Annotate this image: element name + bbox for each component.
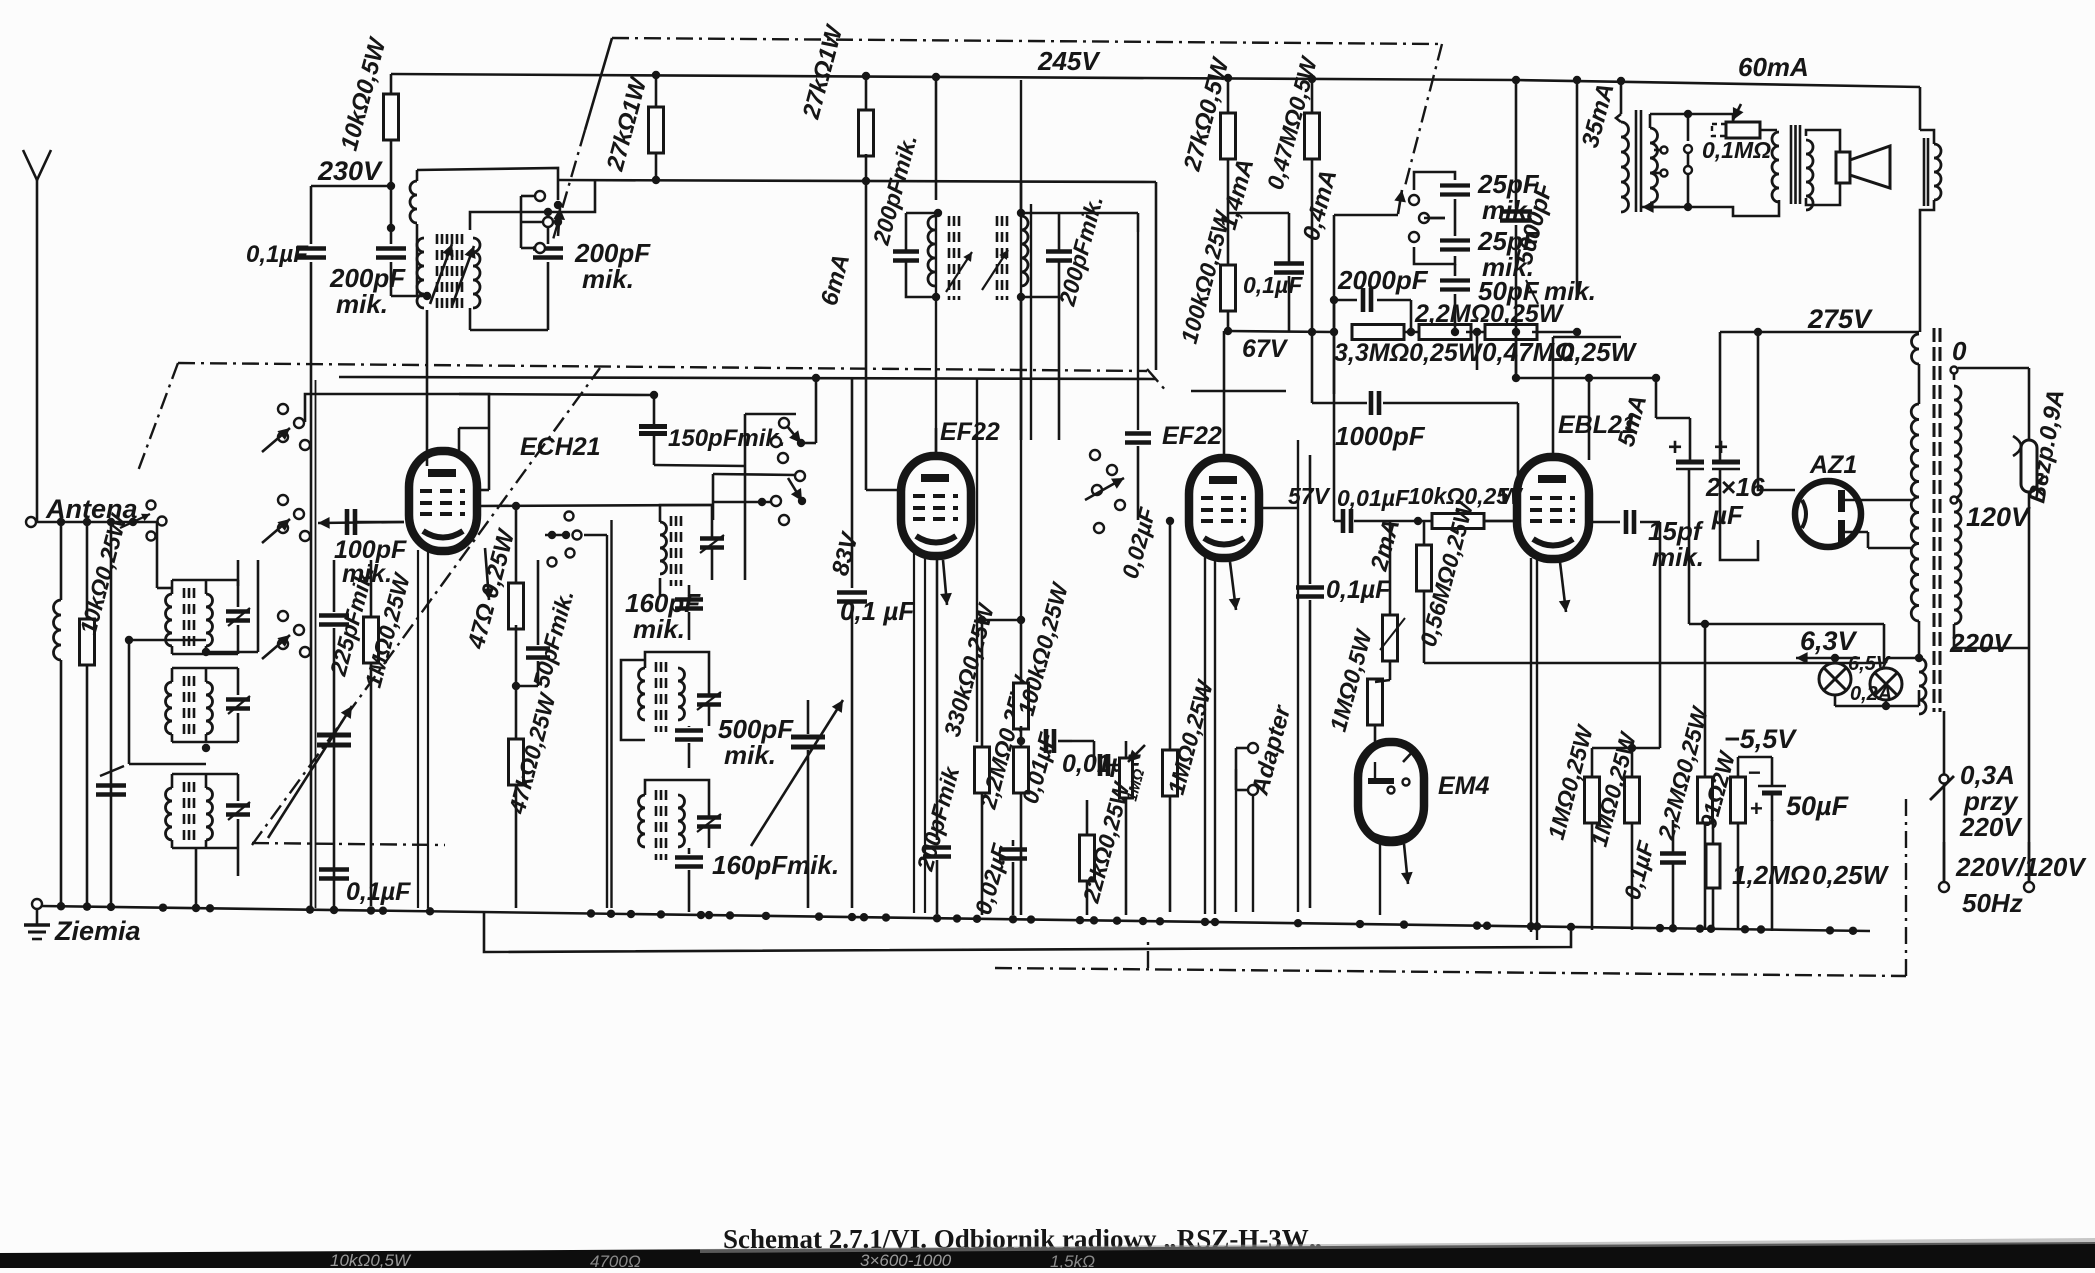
adapter terminals [1224,743,1258,795]
svg-text:mik.: mik. [342,560,392,588]
transformer IF2c [639,780,722,860]
capacitor 200pF osc2 [533,212,563,258]
capacitor 0,02uF a [999,840,1027,915]
svg-text:50µF: 50µF [1786,791,1850,821]
wire heater circuit [1880,629,1919,631]
label 0,1uF em4 [1326,576,1391,604]
wire top dashdot left diagonal [552,38,612,243]
lamp no1 [1819,663,1851,695]
wire 1,4mA tap [1228,213,1289,262]
transformer antenna band C [166,774,250,848]
svg-text:mik.: mik. [633,614,685,644]
svg-text:1000pF: 1000pF [1335,421,1426,451]
capacitor 2x16uF no2 [1712,332,1740,470]
switch trimmer contacts [1394,190,1429,242]
resistor 1,2MOhm [1706,790,1720,930]
wire -5,5 line [1713,756,1856,758]
svg-text:mik.: mik. [336,289,388,319]
wire 2x16 tops [1656,378,1690,462]
svg-text:3×600-1000: 3×600-1000 [860,1251,952,1268]
label 2x16uF [1705,472,1765,530]
wire speaker loop top [1650,110,1733,141]
transformer IF3a [893,209,972,301]
tube AZ1 [1795,481,1861,547]
transformer osc: right coil [452,234,480,308]
wire osc to grid [426,310,429,452]
wire rail 977 [976,378,978,742]
ground Ziemia [24,899,50,939]
wire 1455 to bus [1424,217,1445,220]
wire sc2 box [1040,297,1090,455]
wire bus-180 [557,180,1156,182]
resistor 22kOhm0,25W [1080,800,1095,915]
label 1,2MOhm [1732,860,1890,890]
arrow EM4 cathode [1401,844,1413,884]
svg-text:ECH21: ECH21 [520,433,601,461]
label 60mA [1738,52,1809,82]
transformer antenna band B [166,668,250,742]
capacitor 2000pF [1330,288,1411,332]
wire osc coil bottoms [417,262,548,330]
resistor 1MOhm0,25W r2 [1625,777,1640,930]
wire bus-180 drop [1155,182,1158,370]
switch cluster mid contacts [771,418,805,525]
wire 83V drop [837,378,867,908]
wire linkage diagonal mid [252,368,600,845]
resistor 91Ohm2W [1731,777,1746,930]
label 100kOhm0,25W [1013,578,1074,718]
capacitor 0,1uF right [1660,820,1686,930]
label 220V120V [1955,852,2087,882]
capacitor 160pFmik c [675,848,839,912]
label -5,5V [1724,724,1797,754]
transformer speaker: sec [1806,134,1813,210]
wire switch columns [311,380,316,908]
label 5000pF [1511,179,1559,267]
svg-text:mik.: mik. [1544,276,1596,306]
wire 150pF feed [459,394,745,466]
svg-text:6,5V: 6,5V [1848,653,1891,675]
svg-text:0,1µF: 0,1µF [1243,272,1303,298]
transformer speaker: core [1791,125,1800,204]
transformer IF3b [982,209,1072,301]
label 0,1uF right [1619,837,1660,902]
wire shield dashdot 370 [138,363,1147,471]
arrow EF22b cathode [1229,562,1241,610]
arrow EF22a cathode [914,552,952,913]
wire 245V bus [391,74,1516,80]
wire antenna drop 87 [86,522,89,616]
wire dashdot bottom linkage [995,795,1906,976]
label 91Ohm2W [1695,747,1741,831]
resistor 1MOhm0,25W adapter [1163,517,1178,912]
label 1MOhm0,25W r2 [1586,728,1642,849]
svg-text:67V: 67V [1242,335,1289,363]
wire EF22b cathode rails [1205,556,1215,914]
node antenna junctions [57,501,167,541]
capacitor 0,1uF left [246,186,326,380]
switch ECH21 grid contacts [545,512,607,567]
wire 332 mid [1404,328,1424,336]
wire sec taps [1654,147,1668,177]
capacitor 5000pF [1500,80,1532,378]
wire 6,3V left drop [1773,658,1835,706]
label 10kOhm0,5W [336,33,392,153]
wire IF3b box [1021,182,1138,232]
svg-text:EM4: EM4 [1438,772,1490,800]
label Adapter [1246,701,1296,798]
wire cap1 top link [1623,374,1690,462]
label 1MOhm0,5W [1325,618,1405,734]
label 0,01uF a [1017,729,1061,806]
svg-text:0,1µF: 0,1µF [246,241,309,268]
wire primary taps [1951,367,2030,649]
svg-text:230V: 230V [317,156,383,186]
label 22kOhm0,25W [1077,778,1135,907]
capacitor 500pF mik [675,714,794,770]
label 0,56MOhm0,25W [1415,497,1479,649]
switch cluster EF22b [1085,450,1125,533]
label 15pF mik [1648,516,1704,572]
wire EBL21 top box [1423,439,1425,441]
label 200pF mik 2 [574,238,651,294]
wire ECH21 triode plate [476,428,489,490]
wire EBL21 anode rail right [1622,460,1624,663]
bottom strip [0,1238,2095,1271]
svg-text:EF22: EF22 [1162,422,1222,450]
wire ebl row [1589,377,1623,380]
capacitor 0,1uF agc [319,862,411,906]
label EM4 [1438,772,1490,800]
svg-text:+: + [1668,434,1682,461]
label AZ1 [1809,451,1857,479]
wire 0,4mA node [1330,215,1398,394]
label 200pFmik bottom [911,763,964,874]
label 5mA [1613,392,1653,449]
svg-text:µF: µF [1711,500,1744,530]
capacitor antenna trimmer [96,766,126,906]
switch osc contacts [521,191,565,253]
label 225pFmik [324,563,378,679]
wire mains leads [1944,842,2029,882]
switch mains [1930,711,2034,892]
label 220V [1949,628,2013,658]
arrow EBL21 cathode [1559,562,1571,612]
svg-text:120V: 120V [1966,502,2031,532]
wire EBL21 cathode rails [1531,558,1537,940]
wire 332 right [1532,328,1581,336]
resistor 27kOhm0,5W [1221,78,1236,266]
wire IF2 box left [621,660,645,740]
wire EM4 internals [1368,742,1416,839]
wire 50uF bottom [1772,757,1835,931]
label 1MOhm0,25W agc [360,569,416,690]
resistor 2,2MOhm0,25W mid [1014,741,1029,915]
wire lamp links [1831,654,1923,710]
resistor 0,47MOhm0,5W [1305,79,1320,332]
label 10kOhm0,25W det [1408,483,1524,509]
resistor 1MOhm0,5W lower [1368,679,1391,742]
wire EM4 leads [1375,840,1399,915]
wire 67V line [1228,328,1334,336]
label 47kOhm0,25W [503,689,561,818]
wire EF22a grid top [935,77,938,200]
label EF22 no2 [1162,422,1222,450]
transformer power: core [1934,328,1940,712]
capacitor 150pFmik [639,391,667,465]
wire ECH21 grid right [476,502,712,510]
wire 0,1uF em4 vert [1296,455,1324,908]
wire det node [1372,517,1432,525]
label 0,01uF det [1337,485,1410,511]
label 27kOhm1W no2 [797,21,848,123]
label 50pF mik [1478,276,1596,306]
wire 15pF right [1659,522,1662,663]
label 245V [1037,46,1101,76]
resistor 1MOhm0,25W agc [364,560,379,906]
wire feedback right [1920,87,1941,332]
svg-text:0,25W: 0,25W [1812,860,1890,890]
label 25pF mik 1 [1477,169,1540,225]
svg-text:−: − [1748,760,1761,785]
resistor 1MOhm0,5W upper [1383,521,1398,680]
wire EBL21 screen [1512,332,1593,460]
wire lamp circuit down [1834,706,1836,757]
label 35mA [1577,80,1620,150]
label 0,47MOhm0,5W [1262,52,1323,192]
label 0,1uF 67V [1243,272,1303,298]
svg-text:0,01µF: 0,01µF [1337,485,1410,511]
resistor 10kOhm0,25W antenna [80,616,95,906]
antenna terminal [26,514,160,528]
svg-text:220V: 220V [1949,628,2013,658]
wire minus5,5 rail [1771,756,1773,758]
wire EF22b right rail [1260,440,1298,912]
capacitor 100pF mik [318,509,404,535]
capacitor tuning gang 1 [268,706,352,838]
lamp no2 [1870,668,1902,700]
transformer IF2b [639,652,722,732]
wire speaker conn [1806,130,1840,205]
svg-text:245V: 245V [1037,46,1101,76]
capacitor 25pF mik 2 [1440,218,1470,250]
label 6mA [816,251,856,308]
arrow ECH21 cathode [418,548,494,908]
node 245V junctions [652,71,1625,85]
label 150pFmik [668,425,785,452]
transformer output: primary [1616,81,1629,332]
resistor 47kOhm0,25W [509,686,524,908]
label 0,1uF EF22a [840,596,915,626]
wire 6mA drop [866,181,901,490]
capacitor tuning gang 2 [751,700,843,908]
capacitor 50uF [1748,757,1786,821]
svg-text:6,3V: 6,3V [1800,626,1858,656]
transformer output: secondary [1650,114,1658,207]
wire 1,2M feed [1632,819,1713,821]
label 57V [1288,483,1331,509]
transformer power: HV winding [1911,334,1919,624]
label 2,2MOhm0,25W mid [974,671,1035,812]
label 1,4mA [1215,156,1260,233]
label ECH21 [520,433,601,461]
wire AZ1 anode loop [1720,332,1795,560]
label 120V [1966,502,2031,532]
resistor 27kOhm1W no2 [859,76,874,181]
svg-text:0,1MΩ: 0,1MΩ [1702,137,1771,163]
wire 0,47M drop [1476,332,1479,370]
label 0,1MOhm [1702,137,1771,163]
label 0,3A przy 220V [1959,760,2023,842]
antenna symbol [23,150,51,522]
resistor 100kOhm0,25W [1014,620,1029,741]
wire 6,3V winding [1919,624,1926,714]
label Ziemia [54,916,141,946]
capacitor 25pF mik 1 [1440,186,1470,219]
label 6,3V [1800,626,1858,656]
wire band coil links [125,522,258,912]
label 0,02uF rot right [1117,504,1161,581]
label 0,4mA [1298,167,1343,244]
tube EM4 [1358,742,1424,842]
label 2,2MOhm0,25W r3 [1652,702,1713,843]
svg-text:50Hz: 50Hz [1962,888,2023,918]
capacitor 0,1uF em4 [1309,521,1311,588]
capacitor 200pFmik bottom [923,555,951,914]
svg-text:60mA: 60mA [1738,52,1809,82]
svg-text:mik.: mik. [582,264,634,294]
label 67V [1242,335,1289,363]
wire return bus 2 [484,911,1571,952]
capacitor 0,01uF b [1062,741,1141,778]
wire IF3b down [1020,297,1023,440]
wire ECH21 plate [427,428,489,466]
wire EBL21 plate [1553,80,1621,457]
resistor 2,2MOhm0,25W top [1414,300,1565,340]
svg-text:3,3MΩ0,25W: 3,3MΩ0,25W [1334,339,1484,367]
capacitor 50pF mik [1440,264,1470,336]
svg-text:160pFmik.: 160pFmik. [712,850,839,880]
speaker [1836,146,1890,188]
wire EBL21 grid left [1484,440,1518,521]
wire EF22a plate vert [935,77,937,455]
label 47Ohm0,25W [462,525,520,653]
svg-text:mik.: mik. [724,740,776,770]
wire shield 391 [1147,369,1286,392]
label EF22 no1 [940,418,1000,446]
wire EF22a top lead [935,428,938,455]
wire 230V line [311,182,395,190]
capacitor 15pF mik [1591,510,1660,534]
wire linkage horizontal 840 [252,843,445,845]
potentiometer 0,1MOhm [1712,104,1760,138]
wire 330k-100k top [982,616,1025,624]
svg-text:0: 0 [1952,336,1967,366]
svg-text:2000pF: 2000pF [1337,265,1429,295]
capacitor 160pF mik a [625,585,703,644]
tube EF22 no2 [1189,458,1259,558]
resistor 330kOhm0,25W [975,616,990,915]
label 1MOhm0,25W r1 [1543,721,1599,842]
wire top dashdot bus [612,38,1442,44]
label 25pF mik 2 [1477,226,1540,282]
capacitor 0,01uF a [1017,729,1072,753]
wire ECH21 grid box [305,394,489,428]
svg-text:−5,5V: −5,5V [1724,724,1797,754]
wire mid verticals [713,414,796,580]
wire ct taps [1684,145,1692,207]
transformer IF2a [660,505,724,596]
transformer antenna band A [166,580,250,654]
wire -5,5V top [1592,663,1772,778]
label 200pF mik 1 [329,263,406,319]
svg-text:EF22: EF22 [940,418,1000,446]
oscillator coil top loop [410,168,558,296]
resistor 3,3MOhm0,25W [1334,325,1484,368]
resistor 0,47MOhm0,25W [1482,325,1638,368]
wire adapter rail [1236,769,1253,912]
svg-text:2×16: 2×16 [1705,472,1765,502]
label 275V [1807,304,1873,334]
label 230V [317,156,383,186]
svg-text:0,1µF: 0,1µF [1326,576,1391,604]
wire pot to trafo2 [1760,129,1777,132]
resistor 10kOhm0,25W det [1372,514,1518,529]
label 1MOhm0,25W adapter [1163,676,1219,797]
capacitor 0,1uF 67V [1274,264,1304,332]
wire 0,56 bottom [1424,620,1884,663]
svg-text:220V/120V: 220V/120V [1955,852,2087,882]
transformer speaker: pri [1772,130,1779,202]
wire trimmer box [1414,172,1455,264]
wire 332 mid2 [1466,328,1490,336]
transformer osc: left coil [417,234,454,308]
resistor 1MOhm0,25W r1 [1585,777,1600,930]
label Antena [45,494,138,524]
svg-text:0,1 µF: 0,1 µF [840,596,915,626]
label 100pF mik [334,536,407,588]
label 50pFmik [528,587,579,690]
wire rail 1013 [1020,80,1022,620]
label 200pFmik 3a [867,132,921,248]
label 2mA [1365,516,1405,574]
wire 2mA drop [1389,521,1391,618]
label Bezp 0,9A [2023,387,2070,505]
node ground bus junctions [57,902,1857,935]
label 27kOhm1W no1 [601,73,652,175]
potentiometer 1MOhm [1120,741,1149,915]
label 83V [827,528,865,578]
svg-text:0,25W: 0,25W [1560,337,1638,367]
resistor 27kOhm1W no1 [649,75,664,180]
capacitor 50pFmik [516,560,550,686]
wire right dashdot diagonal [1404,44,1442,190]
label 1000pF [1335,421,1426,451]
tube EF22 no1 [901,456,971,556]
capacitor 1000pF [1312,332,1518,440]
svg-text:0,1µF: 0,1µF [346,878,411,906]
label 100kOhm0,25W right [1176,206,1237,346]
wire EF22b grid [1223,331,1226,458]
label 330kOhm0,25W [939,599,1000,739]
capacitor 0,1uF EF22a [852,490,866,580]
fuse Bezp 0,9A [2013,368,2045,888]
capacitor 0,01uF det [1334,300,1372,533]
tube ECH21 [409,451,477,551]
resistor 10kOhm0,5W [384,74,399,186]
node bus180 junctions [652,176,870,185]
capacitor 200pF osc1 [376,228,420,296]
